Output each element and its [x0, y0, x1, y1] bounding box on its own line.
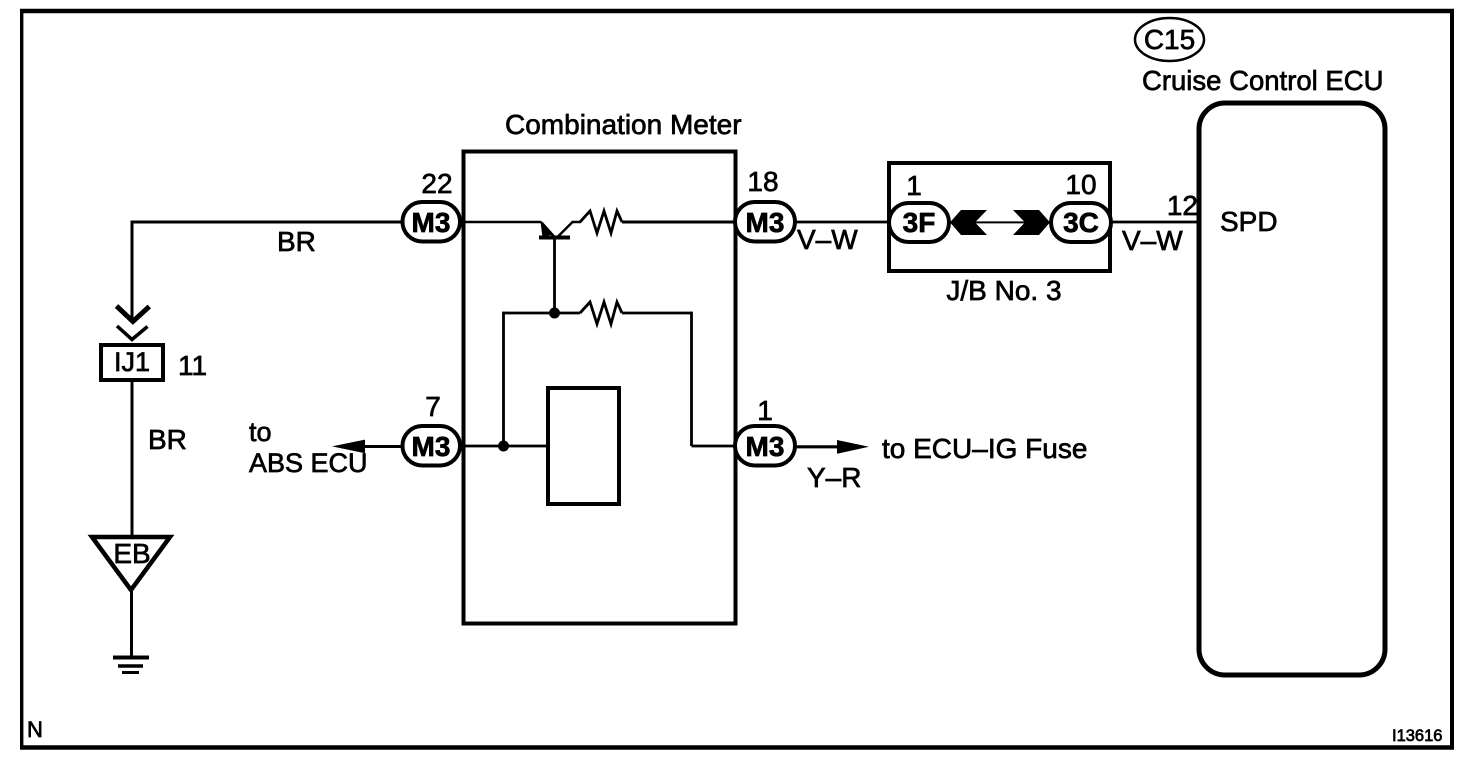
chevron arrow right — [1013, 210, 1050, 235]
wire BR horizontal — [131, 221, 402, 224]
inner component box — [548, 388, 619, 504]
svg-text:EB: EB — [113, 538, 150, 569]
svg-text:M3: M3 — [412, 431, 451, 462]
connector 3F — [889, 203, 949, 242]
connector 3C — [1051, 203, 1111, 242]
svg-text:BR: BR — [148, 424, 187, 455]
svg-text:11: 11 — [178, 350, 207, 381]
wire pin7 to inner box — [460, 445, 548, 448]
wire transistor base down — [553, 238, 556, 314]
svg-text:C15: C15 — [1144, 24, 1195, 55]
transistor Q1 — [539, 222, 581, 238]
svg-text:ABS ECU: ABS ECU — [249, 448, 368, 478]
svg-text:J/B No. 3: J/B No. 3 — [946, 275, 1061, 306]
wire pin22 to transistor — [460, 221, 541, 224]
svg-text:M3: M3 — [746, 207, 785, 238]
arrow to ECU-IG fuse — [795, 445, 840, 448]
arrow to ABS ECU — [363, 445, 402, 448]
svg-text:12: 12 — [1167, 190, 1198, 221]
chevron arrow left — [950, 210, 987, 235]
svg-text:SPD: SPD — [1220, 206, 1278, 237]
wire pin18 to 3F — [795, 221, 889, 224]
svg-text:to: to — [249, 417, 272, 447]
combination meter box — [464, 152, 736, 624]
wire horizontal mid — [504, 312, 581, 315]
cruise control ECU box — [1199, 103, 1385, 675]
svg-text:18: 18 — [747, 166, 778, 197]
svg-text:Y–R: Y–R — [807, 462, 861, 493]
wire resistor R2 to right — [622, 312, 692, 315]
svg-text:Cruise Control ECU: Cruise Control ECU — [1142, 65, 1383, 96]
svg-text:3C: 3C — [1063, 207, 1099, 238]
svg-text:22: 22 — [421, 168, 452, 199]
svg-text:3F: 3F — [903, 207, 936, 238]
EB ground triangle — [92, 537, 170, 590]
ground symbol — [113, 658, 149, 673]
svg-text:IJ1: IJ1 — [114, 347, 150, 377]
svg-text:V–W: V–W — [1122, 225, 1183, 256]
svg-text:M3: M3 — [412, 207, 451, 238]
connector C15 oval — [1135, 18, 1204, 61]
wire resistor to pin 18 — [622, 221, 737, 224]
svg-text:1: 1 — [906, 170, 922, 201]
wire between arrows — [975, 221, 1025, 223]
svg-text:10: 10 — [1065, 169, 1096, 200]
resistor R1 — [580, 211, 622, 233]
connector M3 pin 7 — [403, 426, 461, 466]
wire BR vertical to EB — [131, 380, 134, 539]
connector M3 pin 1 — [735, 426, 795, 466]
wire left vertical to pin7 row — [502, 312, 505, 446]
wire EB to ground — [130, 590, 133, 657]
wire down-left vertical — [131, 221, 134, 321]
junction dot — [549, 308, 560, 319]
svg-text:Combination Meter: Combination Meter — [505, 109, 742, 140]
double chevron arrow down — [117, 306, 150, 340]
svg-text:1: 1 — [757, 395, 773, 426]
resistor R2 — [580, 302, 622, 324]
svg-text:to ECU–IG Fuse: to ECU–IG Fuse — [882, 433, 1087, 464]
svg-text:N: N — [27, 717, 43, 742]
svg-text:V–W: V–W — [797, 224, 858, 255]
junction dot 2 — [498, 441, 509, 452]
J/B No.3 box — [889, 163, 1110, 271]
connector M3 pin 22 — [403, 202, 461, 242]
wire right vertical to pin1 row — [690, 312, 693, 446]
wire to pin 1 — [692, 445, 738, 448]
IJ1 box — [101, 345, 163, 380]
wire 3C to SPD — [1111, 221, 1199, 224]
svg-text:7: 7 — [425, 391, 441, 422]
svg-text:BR: BR — [277, 226, 316, 257]
connector M3 pin 18 — [735, 202, 795, 242]
svg-text:I13616: I13616 — [1392, 727, 1442, 745]
svg-text:M3: M3 — [746, 431, 785, 462]
